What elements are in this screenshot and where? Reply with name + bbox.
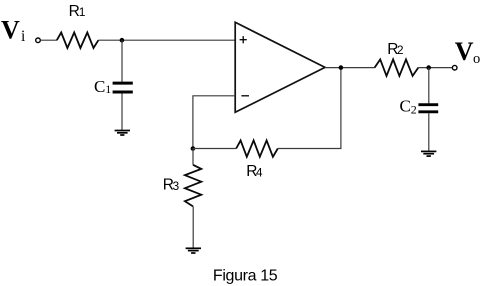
label R2 bbox=[387, 41, 404, 58]
ground (R3) bbox=[186, 248, 201, 253]
wire node D to C2 bbox=[428, 68, 430, 104]
svg-text:V: V bbox=[1, 16, 20, 45]
resistor R1 bbox=[57, 33, 99, 49]
label Vo bbox=[455, 37, 480, 67]
svg-text:Figura 15: Figura 15 bbox=[213, 267, 278, 284]
svg-text:C: C bbox=[400, 96, 411, 115]
label C2 bbox=[400, 96, 417, 116]
wire R3 to ground bbox=[192, 206, 194, 248]
resistor R3 bbox=[185, 165, 201, 207]
node D junction bbox=[426, 65, 431, 70]
label Vi bbox=[1, 16, 26, 46]
terminal Vi bbox=[36, 38, 41, 43]
svg-text:i: i bbox=[21, 28, 26, 45]
resistor R2 bbox=[375, 59, 419, 76]
wire node B to R4 bbox=[193, 148, 236, 150]
capacitor C1 bbox=[113, 83, 133, 92]
svg-text:1: 1 bbox=[79, 5, 86, 19]
resistor R4 bbox=[236, 140, 278, 156]
op-amp plus input symbol bbox=[240, 36, 247, 43]
wire C1 to ground bbox=[121, 93, 123, 130]
node B junction bbox=[191, 146, 196, 151]
op-amp U1 bbox=[235, 22, 325, 112]
op-amp minus input symbol bbox=[241, 95, 249, 97]
wire C2 to ground bbox=[428, 113, 430, 151]
terminal Vo bbox=[452, 65, 457, 70]
ground (C2) bbox=[421, 151, 436, 156]
capacitor C2 bbox=[418, 105, 438, 112]
svg-text:4: 4 bbox=[256, 165, 263, 179]
wire node A to C1 bbox=[121, 40, 123, 82]
svg-text:2: 2 bbox=[411, 102, 417, 116]
label R1 bbox=[69, 3, 86, 20]
label R3 bbox=[163, 177, 180, 194]
label R4 bbox=[246, 163, 263, 180]
ground (C1) bbox=[115, 131, 130, 136]
wire op-amp inverting input bbox=[193, 96, 235, 149]
svg-text:o: o bbox=[473, 51, 480, 67]
svg-text:2: 2 bbox=[397, 43, 404, 57]
label C1 bbox=[94, 77, 111, 96]
wire R2 to Vo bbox=[418, 67, 452, 69]
svg-text:V: V bbox=[455, 37, 474, 66]
wire op-amp output to R2 bbox=[325, 67, 375, 69]
node A junction bbox=[120, 38, 125, 43]
wire R4 to output node bbox=[278, 68, 341, 149]
svg-text:C: C bbox=[94, 77, 105, 96]
wire node B to R3 bbox=[192, 149, 194, 165]
wire Vi to R1 bbox=[40, 39, 57, 41]
svg-text:3: 3 bbox=[173, 179, 180, 193]
wire R1 to op-amp noninverting input bbox=[98, 39, 235, 41]
node C junction (output) bbox=[339, 65, 344, 70]
svg-text:1: 1 bbox=[105, 82, 111, 96]
